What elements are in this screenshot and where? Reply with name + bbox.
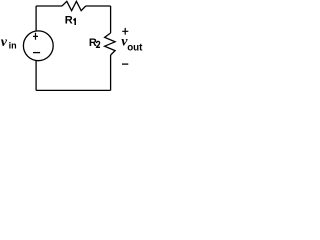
- svg-text:R: R: [65, 14, 73, 26]
- wire: bottom rail: [36, 89, 111, 91]
- wire: top rail right segment: [86, 5, 111, 7]
- wire: right vertical upper lead: [110, 6, 112, 33]
- v_out plus sign: [122, 28, 128, 35]
- wire: top-left vertical from source to top rail: [35, 6, 37, 31]
- wire: right vertical lower lead: [110, 55, 112, 90]
- resistor R1 zigzag: [62, 1, 86, 10]
- svg-text:in: in: [9, 40, 17, 50]
- svg-text:v: v: [1, 35, 8, 50]
- svg-text:R: R: [89, 37, 97, 49]
- voltage source minus sign: [33, 52, 40, 54]
- resistor R2 zigzag: [105, 33, 116, 55]
- wire: left vertical from bottom rail to source: [35, 61, 37, 91]
- wire: top rail left segment: [36, 5, 62, 7]
- voltage source V1 circle: [23, 31, 53, 61]
- voltage source plus sign: [33, 33, 38, 40]
- v_out minus sign: [122, 63, 128, 65]
- svg-text:out: out: [127, 42, 143, 53]
